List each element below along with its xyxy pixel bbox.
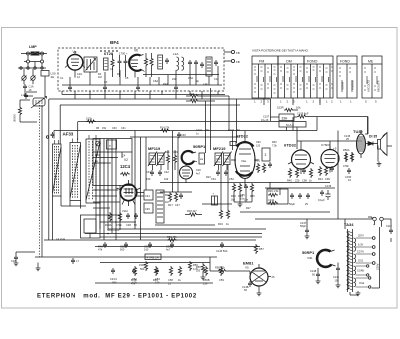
svg-text:3: 3 <box>267 100 269 104</box>
cap C133 <box>298 193 302 199</box>
coupling rect 2a <box>199 153 205 164</box>
svg-text:C109 8μF: C109 8μF <box>297 112 309 116</box>
svg-text:12C4: 12C4 <box>120 164 131 169</box>
speaker jack <box>378 133 388 156</box>
svg-text:47k: 47k <box>98 248 103 252</box>
svg-text:50RP1: 50RP1 <box>193 144 206 149</box>
svg-text:257V: 257V <box>358 235 364 238</box>
svg-text:160: 160 <box>144 248 149 252</box>
wire <box>25 76 45 96</box>
bus lower2 <box>85 233 262 235</box>
cap C4B <box>124 59 128 65</box>
svg-text:1k: 1k <box>309 179 312 183</box>
diode DI35 <box>366 142 378 146</box>
svg-text:C6A: C6A <box>153 79 158 83</box>
caps under MF119 <box>150 170 154 176</box>
svg-text:50RP1: 50RP1 <box>302 250 315 255</box>
TA34 secondary winding 3 <box>354 266 356 275</box>
resistor R62 <box>154 266 157 276</box>
svg-text:CG4B: CG4B <box>357 270 364 273</box>
ground <box>257 291 262 296</box>
resistor R64 <box>178 266 181 276</box>
resistor R58 <box>217 269 227 272</box>
resistors under V4 <box>288 168 291 178</box>
svg-text:1k: 1k <box>178 278 181 282</box>
svg-text:100: 100 <box>155 281 160 285</box>
switch bank main box <box>252 56 333 98</box>
caps under box <box>68 85 72 91</box>
wire <box>368 117 393 162</box>
tube V1b thick arc <box>129 55 141 71</box>
tuning coil L5 <box>53 144 62 196</box>
svg-text:0,1μF: 0,1μF <box>318 198 325 202</box>
trimmer T1 <box>22 76 26 80</box>
svg-text:6TD32: 6TD32 <box>236 134 249 139</box>
svg-text:C107: C107 <box>263 115 270 119</box>
svg-text:C42: C42 <box>164 170 169 174</box>
svg-text:4n7: 4n7 <box>196 173 201 176</box>
svg-text:C4: C4 <box>110 67 114 71</box>
terminals row2 <box>27 60 30 63</box>
svg-text:152R: 152R <box>277 106 284 110</box>
wire <box>28 55 42 60</box>
svg-text:CG7A: CG7A <box>357 251 364 254</box>
svg-text:2a: 2a <box>200 157 203 161</box>
svg-text:VISTA POSTERIORE DEI TASTI: VISTA POSTERIORE DEI TASTI A MANO <box>252 49 309 53</box>
transformer TA34 core <box>348 229 353 292</box>
wire lamp down <box>42 99 78 257</box>
svg-text:TA34: TA34 <box>344 222 354 227</box>
pin dots row <box>100 50 118 52</box>
numbers <box>365 100 377 104</box>
detector column boxes <box>144 190 153 200</box>
svg-text:C46: C46 <box>173 151 178 154</box>
svg-text:56pF: 56pF <box>300 224 306 228</box>
bus B+ top <box>49 98 271 100</box>
dashed gang link <box>39 105 41 258</box>
node dots mesh <box>95 189 97 191</box>
svg-text:R21: R21 <box>165 151 170 154</box>
resistor 152R <box>284 108 294 111</box>
svg-text:1500: 1500 <box>139 263 145 267</box>
wire <box>271 117 316 150</box>
wire below box <box>62 94 225 96</box>
svg-text:450: 450 <box>112 281 117 285</box>
cap C7 <box>188 60 192 66</box>
bus lower3 <box>44 239 256 241</box>
column lines <box>259 64 331 98</box>
svg-text:BF4: BF4 <box>110 40 119 45</box>
coil box L50 <box>41 71 49 77</box>
resistor R7 10k <box>189 94 199 97</box>
coil top terminals <box>55 135 97 144</box>
svg-text:25: 25 <box>168 282 171 286</box>
svg-text:LMP: LMP <box>29 45 37 49</box>
cap C18 <box>14 255 18 261</box>
svg-text:V4a: V4a <box>241 159 246 163</box>
boxed label A TRE 2A <box>145 254 161 260</box>
wire detector row <box>160 183 345 220</box>
svg-text:C44: C44 <box>145 194 150 198</box>
svg-text:Vb: Vb <box>134 49 138 53</box>
svg-text:25: 25 <box>305 202 308 206</box>
svg-text:4H: 4H <box>51 75 55 79</box>
cap C39 <box>177 132 181 138</box>
svg-text:MF119: MF119 <box>148 146 161 151</box>
svg-text:C58: C58 <box>168 278 173 282</box>
tube V2b <box>180 166 193 179</box>
svg-text:OG2: OG2 <box>359 282 365 285</box>
lower row caps 1 <box>103 242 107 248</box>
resistor R63 <box>169 266 172 276</box>
IF can MF119 <box>149 153 156 165</box>
svg-text:16+16: 16+16 <box>261 118 269 122</box>
resistor C109 <box>297 115 307 118</box>
wire <box>20 100 37 122</box>
wire <box>270 99 272 121</box>
svg-text:1: 1 <box>254 100 256 104</box>
resistor row y270: R61 <box>133 266 136 276</box>
svg-text:10k: 10k <box>296 106 301 110</box>
coil L2A <box>177 57 179 70</box>
numbers row <box>254 100 333 104</box>
svg-text:5: 5 <box>365 100 367 104</box>
resistor R21 <box>166 154 169 164</box>
ME contacts <box>364 68 377 90</box>
svg-text:C8A: C8A <box>188 76 193 80</box>
svg-text:C52: C52 <box>229 177 234 181</box>
svg-text:C31: C31 <box>121 127 126 130</box>
svg-text:C1: C1 <box>60 76 64 80</box>
svg-text:R14 27k: R14 27k <box>160 127 170 130</box>
resistor R19 <box>219 209 222 219</box>
svg-text:C3: C3 <box>104 80 108 84</box>
ground <box>305 234 310 239</box>
svg-text:C1A: C1A <box>29 85 34 89</box>
tube V1a <box>67 55 83 71</box>
svg-text:4,7k: 4,7k <box>132 281 138 285</box>
svg-text:1: 1 <box>350 100 352 104</box>
FONO contacts <box>339 68 352 92</box>
svg-text:FB: FB <box>236 51 240 55</box>
svg-text:a: a <box>109 144 111 148</box>
sub rect a <box>107 140 117 149</box>
svg-text:C135: C135 <box>325 184 332 188</box>
svg-text:FONO: FONO <box>307 60 318 64</box>
wire <box>26 92 49 99</box>
svg-text:Va: Va <box>73 50 77 54</box>
svg-text:33H: 33H <box>282 116 289 120</box>
resistor R3 <box>144 57 147 67</box>
node dots <box>99 151 101 153</box>
electrolytic cap 3 <box>262 148 270 161</box>
IF can MF219 <box>215 153 222 165</box>
bus lower7 <box>100 262 210 264</box>
cap C17 <box>71 258 75 264</box>
wire <box>53 196 101 240</box>
svg-text:R18 4k7: R18 4k7 <box>187 209 197 213</box>
svg-text:V3b: V3b <box>307 256 313 260</box>
svg-text:10n: 10n <box>244 199 249 202</box>
electrolytic C60 <box>212 196 218 205</box>
cap C134 <box>306 193 310 199</box>
svg-text:2: 2 <box>331 100 333 104</box>
svg-text:FONO: FONO <box>340 60 350 64</box>
contact arrows <box>257 76 329 82</box>
FONO table box <box>337 56 357 98</box>
svg-text:FM: FM <box>259 60 264 64</box>
svg-text:50: 50 <box>134 223 137 227</box>
tube V4b <box>321 150 339 168</box>
caps lower row2 <box>111 268 115 274</box>
svg-text:C5: C5 <box>125 76 129 80</box>
trimmer coil L2 <box>33 98 45 106</box>
svg-text:L7: L7 <box>76 259 79 263</box>
svg-text:500: 500 <box>120 248 125 252</box>
bus heater <box>78 121 279 123</box>
resistor cluster under V3 <box>256 163 259 173</box>
ground <box>238 202 243 207</box>
cap C137 electrolytic <box>326 190 331 200</box>
svg-text:C30: C30 <box>112 127 117 130</box>
svg-text:R23: R23 <box>206 176 211 179</box>
cap C14B under EM81 <box>248 281 252 287</box>
svg-text:4n7: 4n7 <box>166 248 171 252</box>
wire <box>24 62 42 68</box>
ground <box>377 162 382 167</box>
resistor left of EM81 <box>201 263 204 273</box>
wire <box>210 257 250 274</box>
svg-text:470k: 470k <box>343 164 349 168</box>
svg-text:16k: 16k <box>164 177 169 181</box>
svg-text:120: 120 <box>256 145 261 148</box>
resistor R2A <box>111 58 114 68</box>
svg-text:100: 100 <box>196 270 201 273</box>
bus lower5 <box>95 282 213 284</box>
resistor R47 <box>268 201 278 204</box>
svg-text:5: 5 <box>375 100 377 104</box>
resistor 1500 <box>144 261 147 271</box>
svg-text:R52: R52 <box>132 277 137 281</box>
tube V4 6TD32 <box>292 150 311 169</box>
svg-text:TU32: TU32 <box>353 129 364 134</box>
svg-text:C45: C45 <box>145 207 150 211</box>
cap C9 <box>200 62 204 68</box>
svg-text:C43.0: C43.0 <box>110 277 117 281</box>
svg-text:500: 500 <box>140 267 145 271</box>
svg-text:50A C103: 50A C103 <box>107 228 120 232</box>
svg-text:ASCOLTO: ASCOLTO <box>367 80 371 92</box>
svg-text:C131: C131 <box>268 198 275 202</box>
svg-text:R4A: R4A <box>163 82 168 86</box>
caps under MF219 <box>216 170 220 176</box>
svg-text:10k: 10k <box>190 92 195 96</box>
svg-text:50μF: 50μF <box>289 202 295 206</box>
svg-text:REGISTR: REGISTR <box>377 80 381 92</box>
resistor R34 <box>238 183 241 193</box>
resistor 152k <box>86 120 96 123</box>
speaker coil arc <box>317 250 331 267</box>
cap C140b <box>220 242 224 248</box>
terminals row3 <box>18 67 46 69</box>
svg-text:RIVERB: RIVERB <box>351 80 355 90</box>
svg-text:L4 2μH: L4 2μH <box>56 237 65 241</box>
svg-text:ETERPHON mod. MF E29 - EP10: ETERPHON mod. MF E29 - EP1001 - EP1002 <box>37 294 197 300</box>
magic eye tube EM81 <box>250 268 268 286</box>
trimmer T2 <box>31 76 35 80</box>
resistor R18 <box>188 213 198 216</box>
svg-text:DI 35: DI 35 <box>369 135 377 139</box>
contacts lower band <box>254 84 333 93</box>
secondary tap wires <box>356 238 373 287</box>
wire <box>53 131 55 139</box>
small box MF219 top <box>230 142 236 146</box>
TA34 secondary winding 4 <box>354 278 356 287</box>
svg-text:V2: V2 <box>124 158 128 162</box>
bus lower4 <box>35 256 217 258</box>
cap C4A <box>118 59 122 65</box>
svg-text:R17: R17 <box>168 203 173 207</box>
bus lower6 <box>95 246 260 248</box>
resistor R57 <box>254 244 257 254</box>
RC network box <box>267 189 288 204</box>
svg-text:C76F6: C76F6 <box>321 143 330 147</box>
svg-text:2: 2 <box>287 100 289 104</box>
svg-text:C53: C53 <box>155 277 160 281</box>
wire verticals center <box>135 88 237 240</box>
svg-text:R46 1,5k: R46 1,5k <box>268 189 279 193</box>
FB terminal 2 <box>231 59 234 62</box>
svg-text:3p: 3p <box>196 79 199 83</box>
svg-text:1: 1 <box>306 100 308 104</box>
svg-text:R40: R40 <box>287 179 292 183</box>
svg-text:+: + <box>213 193 215 196</box>
choke 33H box <box>279 114 294 121</box>
cap C136 <box>320 190 324 196</box>
svg-text:1: 1 <box>326 100 328 104</box>
resistor R35 <box>250 183 253 193</box>
coil L4 <box>206 57 212 76</box>
svg-text:R57: R57 <box>259 247 264 251</box>
lamp L1 <box>31 52 39 55</box>
svg-text:30000: 30000 <box>13 114 17 122</box>
resistor R8 10k <box>189 99 199 102</box>
numbers <box>340 100 352 104</box>
svg-text:MF219: MF219 <box>213 146 226 151</box>
wire <box>186 96 229 101</box>
svg-text:100: 100 <box>335 280 340 283</box>
bus lower2b <box>100 236 262 238</box>
svg-text:OG1: OG1 <box>358 260 364 263</box>
svg-text:C51: C51 <box>211 177 216 181</box>
cap C93 <box>268 162 272 168</box>
svg-text:1k: 1k <box>226 222 229 226</box>
TA34 secondary winding 2 <box>354 254 356 263</box>
svg-text:V112: V112 <box>122 209 128 213</box>
resistor R4 <box>150 57 153 67</box>
contacts upper band <box>254 67 333 93</box>
svg-text:ME: ME <box>368 60 374 64</box>
svg-text:C148: C148 <box>310 269 317 273</box>
ferrite coil arc <box>182 151 194 164</box>
lamp terminal circles <box>27 52 30 55</box>
cap C12 <box>51 132 55 138</box>
svg-text:56: 56 <box>312 273 315 277</box>
wire <box>16 252 35 255</box>
svg-text:C48: C48 <box>126 223 131 227</box>
ground <box>316 279 321 284</box>
wire mesh under V2 <box>93 190 144 222</box>
terminal <box>46 136 48 138</box>
svg-text:6,3V: 6,3V <box>358 244 363 247</box>
cap C150 <box>347 168 351 174</box>
svg-text:M.A.3: M.A.3 <box>286 123 294 127</box>
wire bundle vertical <box>96 139 120 241</box>
right rail 220V <box>372 227 380 288</box>
BF4 dashed box <box>58 48 224 91</box>
header rule <box>252 63 333 65</box>
FB terminal 1 <box>231 50 234 53</box>
svg-text:R58 47k: R58 47k <box>215 266 225 270</box>
small parts under tube V2 <box>108 212 111 222</box>
svg-text:16: 16 <box>29 88 32 92</box>
svg-text:1700 +: 1700 + <box>119 52 128 56</box>
svg-text:1: 1 <box>340 100 342 104</box>
tuning coil L6 <box>70 143 81 201</box>
bus screen <box>54 130 317 132</box>
svg-text:C94: C94 <box>238 195 243 198</box>
cap C132 <box>290 193 294 199</box>
svg-text:7,5k: 7,5k <box>272 145 277 148</box>
mains terminals <box>373 217 377 221</box>
svg-text:150: 150 <box>146 177 151 181</box>
cap C6A <box>165 58 169 64</box>
tube V3 6TD32 <box>235 142 255 179</box>
resistor on bus <box>160 129 170 132</box>
wire horizontals center <box>130 137 240 225</box>
svg-text:C98: C98 <box>302 179 307 183</box>
wire <box>345 219 391 242</box>
cap C148 <box>316 272 320 278</box>
wire <box>224 52 231 61</box>
cap C10 <box>214 60 218 66</box>
svg-text:152k: 152k <box>86 117 93 121</box>
wire <box>21 53 47 55</box>
wire <box>62 66 222 85</box>
wire tube row <box>245 131 362 150</box>
ground <box>201 275 206 280</box>
svg-text:C18: C18 <box>11 259 16 263</box>
ME table box <box>362 56 382 98</box>
svg-text:FB: FB <box>236 60 240 64</box>
svg-text:L10: L10 <box>21 93 26 97</box>
svg-text:R27: R27 <box>246 207 251 210</box>
tuning coil L7 <box>86 139 100 203</box>
wire in box <box>93 152 132 163</box>
svg-text:220V: 220V <box>375 263 379 270</box>
svg-text:C99: C99 <box>325 177 330 181</box>
M.A.3 box <box>279 122 306 128</box>
output tube TU32 <box>357 134 366 154</box>
svg-text:1: 1 <box>280 100 282 104</box>
ground <box>336 283 341 288</box>
ground TA34 <box>350 292 358 295</box>
terminal circles <box>372 237 375 240</box>
svg-text:R44: R44 <box>318 177 323 181</box>
cap C8 <box>194 60 198 66</box>
svg-text:R56A: R56A <box>343 148 350 152</box>
wire R7 drop <box>228 96 230 131</box>
